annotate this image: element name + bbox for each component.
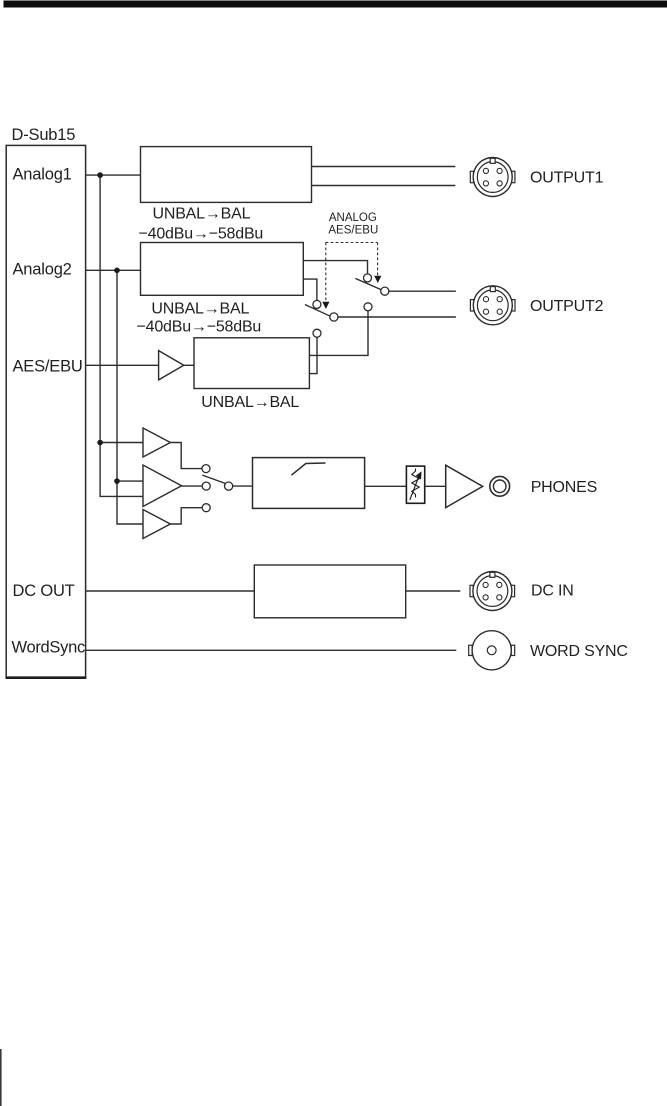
switch S1 lower contact (AES/EBU) <box>364 303 372 311</box>
headphone amp A4 <box>446 465 483 507</box>
switch S1 upper contact (analog) <box>364 274 372 282</box>
switch S1 common <box>381 287 389 295</box>
wire U2 output1 to switch S1 contact <box>303 261 367 274</box>
wire A2 output to selector <box>182 485 203 487</box>
wire bus2 tap to headphone amp A2 <box>117 480 143 482</box>
node junction dot bus1/amp A1 <box>97 440 103 446</box>
headphone amp A1 <box>143 428 170 457</box>
wire U2 output2 to switch S2 contact <box>303 279 317 300</box>
filter box <box>253 458 365 509</box>
headphone amp A3 <box>143 510 170 539</box>
switch S2 upper contact (analog) <box>313 300 321 308</box>
dashed callout box top <box>326 242 378 244</box>
attenuator VR1 box <box>406 466 424 503</box>
switch S2 lever <box>305 305 330 317</box>
attenuator VR1 resistor zigzag <box>412 469 419 498</box>
connector WORD SYNC side tabs <box>469 645 473 655</box>
headphone amp A2 <box>143 465 182 507</box>
connector OUTPUT2 inner ring <box>477 290 508 321</box>
selector S3 common <box>225 482 233 490</box>
wire buffer amp to box U3 <box>184 364 194 366</box>
connector WORD SYNC outer circle <box>472 631 511 670</box>
arrowhead S2 <box>322 302 329 309</box>
svg-text:D-Sub15: D-Sub15 <box>12 126 76 144</box>
node junction dot Analog1 <box>97 172 103 178</box>
connector OUTPUT1 outer circle <box>473 158 512 197</box>
svg-text:WordSync: WordSync <box>12 639 85 657</box>
connector WORD SYNC center pin <box>487 646 496 655</box>
connector OUTPUT1 (4-pin) <box>470 158 515 197</box>
DC-DC converter box <box>254 565 405 618</box>
wire Analog2 to box U2 <box>86 269 141 271</box>
svg-text:DC OUT: DC OUT <box>13 582 75 600</box>
dashed arrow to switch S2 <box>325 243 327 303</box>
selector S3 contact 1 <box>202 465 210 473</box>
phones jack outer <box>490 476 510 496</box>
connector box D-Sub15 <box>6 145 85 677</box>
switch S2 lower contact (AES/EBU) <box>313 329 321 337</box>
wire WordSync to WORD SYNC connector <box>86 649 457 651</box>
wire DC box to DC IN connector <box>406 590 461 592</box>
connector DC IN pins <box>483 582 488 587</box>
switch S2 common <box>330 313 338 321</box>
svg-text:−40dBu→−58dBu: −40dBu→−58dBu <box>137 319 262 336</box>
selector S3 lever <box>202 475 225 483</box>
attenuator VR1 arrowhead <box>416 471 422 479</box>
box U3 UNBAL-BAL AES/EBU <box>194 338 309 389</box>
svg-text:AES/EBU: AES/EBU <box>328 225 378 237</box>
top page header black bar <box>4 1 667 8</box>
wire attenuator to headphone amp A4 <box>425 485 446 487</box>
box U1 UNBAL-BAL Analog1 <box>141 147 312 203</box>
svg-text:WORD SYNC: WORD SYNC <box>530 643 628 660</box>
svg-text:ANALOG: ANALOG <box>329 212 377 224</box>
svg-text:OUTPUT2: OUTPUT2 <box>530 298 604 315</box>
connector DC IN key notch <box>490 572 495 577</box>
svg-text:UNBAL→BAL: UNBAL→BAL <box>151 301 249 318</box>
wire S2 common to OUTPUT2 <box>338 316 456 318</box>
connector OUTPUT2 pins <box>483 297 488 302</box>
svg-text:PHONES: PHONES <box>531 479 597 496</box>
filter response curve <box>291 463 325 475</box>
node junction dot Analog2 <box>114 268 120 274</box>
connector DC IN (4-pin) <box>470 572 515 611</box>
wire U1 output line1 to OUTPUT1 <box>312 166 456 168</box>
selector S3 contact 3 <box>202 504 210 512</box>
wire S1 common to OUTPUT2 <box>389 290 456 292</box>
wire filter to attenuator <box>365 485 407 487</box>
switch S1 lever <box>355 278 381 289</box>
svg-text:Analog1: Analog1 <box>13 166 72 184</box>
wire selector to filter box <box>233 485 252 487</box>
svg-text:DC IN: DC IN <box>531 583 574 600</box>
wire bus1 vertical (Analog1 tap) <box>100 175 143 496</box>
wire AES/EBU to buffer amp <box>86 364 159 366</box>
connector OUTPUT1 pins <box>483 168 488 173</box>
connector OUTPUT2 outer circle <box>473 286 512 325</box>
box U2 UNBAL-BAL Analog2 <box>141 243 304 296</box>
svg-text:AES/EBU: AES/EBU <box>13 358 83 376</box>
connector OUTPUT2 key notch <box>490 287 495 292</box>
connector OUTPUT1 key notch <box>490 158 495 163</box>
arrowhead S1 <box>374 276 381 283</box>
connector box bottom thick edge <box>6 676 87 679</box>
wire A1 output to selector <box>170 443 202 469</box>
bottom-left page edge strip <box>0 1049 2 1106</box>
wire U3 outputB to switch S2 lower contact <box>309 337 317 374</box>
wire U3 outputA to switch S1 lower contact <box>309 311 368 356</box>
svg-text:OUTPUT1: OUTPUT1 <box>530 170 604 187</box>
connector DC IN inner ring <box>477 576 508 607</box>
connector OUTPUT1 side tabs <box>470 171 473 182</box>
connector OUTPUT2 side tabs <box>470 300 473 311</box>
connector OUTPUT1 inner ring <box>477 162 508 193</box>
dashed arrow to switch S1 <box>377 243 379 277</box>
wire DC OUT to DC-DC box <box>86 590 255 592</box>
connector WORD SYNC (BNC) <box>469 631 515 670</box>
svg-text:Analog2: Analog2 <box>13 261 72 279</box>
attenuator VR1 arrow <box>410 478 419 501</box>
buffer amp AES/EBU <box>159 351 184 380</box>
wire U1 output line2 to OUTPUT1 <box>312 185 456 187</box>
connector DC IN side tabs <box>470 585 473 596</box>
wire Analog1 to box U1 <box>86 174 141 176</box>
wire bus2 vertical (Analog2 tap) <box>117 270 143 524</box>
connector OUTPUT2 (4-pin) <box>470 286 515 325</box>
svg-text:−40dBu→−58dBu: −40dBu→−58dBu <box>139 226 264 243</box>
selector S3 contact 2 <box>202 482 210 490</box>
svg-text:UNBAL→BAL: UNBAL→BAL <box>153 206 251 223</box>
svg-text:UNBAL→BAL: UNBAL→BAL <box>201 394 299 411</box>
connector DC IN outer circle <box>473 572 512 611</box>
phones jack inner <box>493 480 506 493</box>
wire A3 output to selector <box>170 508 202 524</box>
wire bus1 tap to headphone amp A1 <box>100 442 143 444</box>
node junction dot bus2/amp A2 <box>114 478 120 484</box>
